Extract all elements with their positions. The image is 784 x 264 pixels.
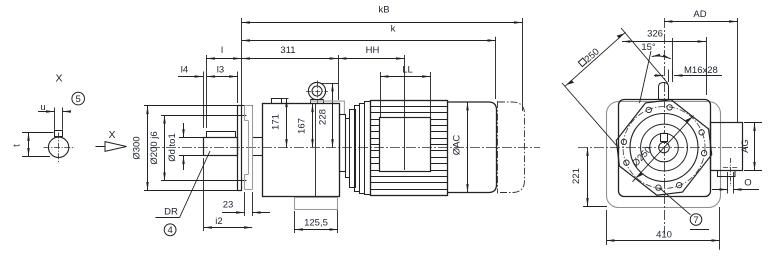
svg-text:kB: kB xyxy=(378,5,389,16)
svg-text:l3: l3 xyxy=(217,65,224,76)
output shaft xyxy=(204,138,238,156)
bolt holes xyxy=(667,105,672,110)
fan guard square (grey) xyxy=(607,102,721,208)
svg-text:i2: i2 xyxy=(215,216,222,227)
end view centerlines xyxy=(578,147,748,149)
eyebolt xyxy=(308,82,325,99)
balloon 4 xyxy=(164,224,176,236)
cooling fins xyxy=(371,107,448,190)
svg-text:221: 221 xyxy=(571,168,582,184)
svg-text:X: X xyxy=(55,73,62,85)
key on shaft xyxy=(207,132,236,138)
svg-text:Ø200 j6: Ø200 j6 xyxy=(149,131,160,164)
keyway xyxy=(55,131,63,137)
balloon 5 xyxy=(72,92,85,105)
svg-text:125,5: 125,5 xyxy=(304,218,328,229)
svg-text:k: k xyxy=(391,24,396,35)
svg-text:AG: AG xyxy=(740,139,751,153)
motor adapter neck xyxy=(340,115,346,172)
15 degree reference xyxy=(640,51,652,103)
extension lines flange dims xyxy=(144,105,253,107)
svg-text:X: X xyxy=(108,129,115,141)
svg-text:Ød to1: Ød to1 xyxy=(167,133,178,162)
M16 tap boss xyxy=(659,83,669,101)
svg-text:HH: HH xyxy=(366,45,380,56)
svg-text:410: 410 xyxy=(656,230,672,241)
dimension D250 xyxy=(633,116,694,182)
svg-text:311: 311 xyxy=(280,45,295,56)
svg-text:O: O xyxy=(744,177,751,188)
shaft circle (section) xyxy=(48,137,68,157)
svg-text:23: 23 xyxy=(223,200,234,211)
svg-text:AD: AD xyxy=(693,9,706,20)
svg-text:167: 167 xyxy=(297,118,308,134)
extension lines top dims xyxy=(241,18,243,106)
svg-text:DR: DR xyxy=(164,207,178,218)
centerline vertical xyxy=(58,133,60,164)
svg-text:Ø300: Ø300 xyxy=(132,136,143,159)
grey adapter phantom xyxy=(310,101,345,114)
svg-text:l: l xyxy=(221,45,223,56)
fan cover phantom xyxy=(498,102,525,193)
housing bottom grey step xyxy=(295,198,338,210)
centerline horizontal xyxy=(44,147,76,149)
svg-text:t: t xyxy=(12,144,23,147)
shaft stub to housing xyxy=(252,137,262,139)
motor end bell xyxy=(448,102,497,193)
housing internal line xyxy=(315,104,317,197)
svg-text:15°: 15° xyxy=(641,42,656,53)
svg-text:250: 250 xyxy=(583,46,602,65)
motor square xyxy=(619,100,711,197)
dimension square 250 xyxy=(565,32,625,86)
output flange octagon xyxy=(616,100,711,195)
svg-text:Ø250: Ø250 xyxy=(630,145,654,170)
bolt circle (phantom) xyxy=(623,107,705,189)
svg-text:M16x28: M16x28 xyxy=(684,65,718,76)
flange circles xyxy=(630,114,698,182)
terminal box end view xyxy=(711,123,743,171)
motor flange rings xyxy=(346,119,350,178)
svg-text:LL: LL xyxy=(402,65,413,76)
svg-text:7: 7 xyxy=(693,215,698,226)
main centerline xyxy=(150,147,540,149)
svg-text:326: 326 xyxy=(647,29,663,40)
svg-text:4: 4 xyxy=(167,225,172,236)
motor stator xyxy=(371,101,448,196)
svg-text:5: 5 xyxy=(76,94,81,105)
customer wall (grey phantom) xyxy=(245,106,253,190)
gear housing xyxy=(263,104,340,197)
keyway end view xyxy=(661,134,668,142)
balloon 7 with leader xyxy=(660,188,691,215)
flange plate xyxy=(238,106,242,191)
oil plug xyxy=(272,99,282,104)
svg-text:l4: l4 xyxy=(181,65,188,76)
svg-text:228: 228 xyxy=(318,109,329,125)
svg-text:ØAC: ØAC xyxy=(452,135,463,156)
terminal box side view xyxy=(380,118,431,172)
svg-text:171: 171 xyxy=(271,114,282,130)
